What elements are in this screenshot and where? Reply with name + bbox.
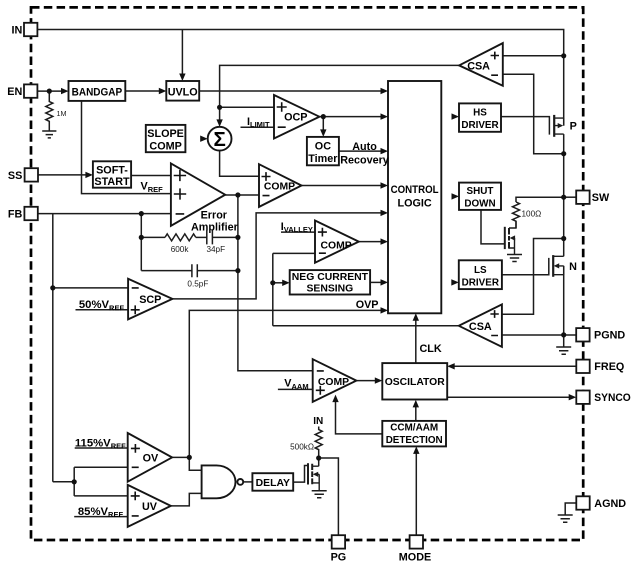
signs valley COMP + -	[318, 228, 327, 254]
wire MODE pin to CCM/AAM DETECTION	[415, 450, 417, 535]
svg-text:PGND: PGND	[594, 330, 625, 342]
wire BANDGAP to UVLO	[125, 90, 162, 92]
svg-text:PG: PG	[331, 552, 347, 563]
wire FB branch down left side	[52, 214, 54, 482]
pin AGND	[576, 496, 589, 509]
svg-text:SHUT: SHUT	[467, 186, 494, 197]
ground below shutdown FET	[507, 255, 522, 262]
arrow into CONTROL LOGIC from OC Timer	[381, 148, 389, 154]
wire SHUT DOWN to discharge FET gate	[481, 210, 505, 244]
svg-text:600k: 600k	[171, 245, 190, 254]
wire feedback RC row leads	[141, 236, 165, 238]
wire summing node output to COMP	[220, 151, 259, 177]
wire OSCILATOR to SYNCO pin	[447, 396, 573, 398]
comparator UV triangle	[128, 485, 171, 527]
junction dot P-FET drain CSA	[561, 151, 566, 156]
wire valley COMP output to CONTROL LOGIC	[359, 241, 385, 243]
junction dot OV output	[187, 455, 192, 460]
wire FB to Error Amplifier inverting input	[38, 213, 171, 215]
arrow into sigma from CSA line	[216, 119, 222, 127]
resistor 1M	[46, 91, 53, 131]
wire 85%VREF input to UV	[74, 516, 128, 518]
signs OCP + -	[277, 102, 287, 127]
wire OCP output branch to OC Timer	[322, 117, 324, 134]
wire P-FET drain to SW to N-FET drain	[563, 134, 565, 256]
resistor 100ohm	[513, 202, 520, 228]
junction dot SCP input	[50, 285, 55, 290]
HS DRIVER block	[459, 103, 501, 131]
arrow into BANDGAP	[61, 88, 69, 94]
DELAY block	[252, 473, 293, 491]
svg-text:NEG CURRENT: NEG CURRENT	[292, 272, 369, 283]
pin EN	[24, 84, 37, 97]
wire 0.5pF row leads	[141, 270, 192, 272]
arrow into SYNCO pin	[569, 394, 577, 400]
svg-text:Error: Error	[201, 209, 228, 221]
transistor Q-shutdown (SW discharge NMOS)	[505, 221, 516, 254]
svg-text:EN: EN	[7, 86, 22, 98]
wire IN drop to UVLO	[181, 30, 183, 78]
signs CSA high + -	[491, 52, 499, 76]
ground below PG FET	[312, 491, 327, 498]
svg-text:DOWN: DOWN	[464, 198, 495, 209]
svg-text:CSA: CSA	[469, 321, 492, 333]
wire 50%VREF input to SCP	[76, 309, 129, 311]
wire CLK from OSCILATOR to CONTROL LOGIC	[415, 316, 417, 363]
capacitor 0.5pF	[192, 264, 197, 277]
wire SS to SOFT-START	[38, 174, 89, 176]
junction dot EN divider	[47, 89, 52, 94]
wire UVLO to CONTROL LOGIC	[199, 90, 384, 92]
svg-text:SS: SS	[8, 170, 22, 182]
wire FB branch to SCP	[53, 287, 128, 289]
comparator OV triangle	[128, 433, 172, 482]
junction dot RC row right	[235, 235, 240, 240]
svg-text:500kΩ: 500kΩ	[290, 442, 314, 451]
svg-text:SOFT-: SOFT-	[96, 164, 128, 176]
svg-text:OV: OV	[143, 453, 159, 465]
OC Timer block	[307, 137, 339, 165]
SHUT DOWN block	[459, 183, 501, 210]
wire NEG CURRENT SENSING output to CONTROL LOGIC	[370, 281, 384, 283]
svg-text:CCM/AAM: CCM/AAM	[390, 423, 438, 434]
wire CSA low-side sense vertical to valley COMP inverting input	[273, 253, 315, 325]
junction dot PGND node	[561, 332, 566, 337]
wire 115%VREF input to OV	[75, 447, 128, 449]
svg-text:COMP: COMP	[264, 181, 295, 192]
svg-text:SLOPE: SLOPE	[147, 128, 184, 140]
SOFT-START block	[93, 161, 131, 187]
NEG CURRENT SENSING block	[290, 270, 370, 294]
wire to NEG CURRENT SENSING input	[273, 282, 287, 284]
ground at PGND node	[556, 347, 571, 354]
wire VAAM input to AAM COMP	[278, 388, 313, 390]
wire CSA output to summing node and OCP	[220, 65, 460, 124]
wire CCM/AAM DETECTION to OSCILATOR	[415, 403, 417, 421]
wire SOFT-START to Error Amplifier	[131, 175, 171, 177]
svg-text:1M: 1M	[57, 109, 67, 118]
junction dot NEG sensing input	[270, 280, 275, 285]
wire IVALLEY input to COMP	[281, 231, 315, 233]
wire NAND to DELAY	[243, 481, 252, 483]
wire OVP route from OV to CONTROL LOGIC	[189, 310, 384, 457]
comparator COMP (PWM) triangle	[259, 164, 302, 207]
wire OV UV common input bracket	[53, 467, 128, 496]
pin PGND	[576, 328, 589, 341]
LS DRIVER block	[459, 260, 502, 289]
junction dot CSA sense to OCP	[217, 105, 222, 110]
svg-text:OSCILATOR: OSCILATOR	[385, 377, 445, 388]
svg-text:DETECTION: DETECTION	[386, 435, 443, 446]
signs AAM COMP - +	[316, 371, 325, 395]
wire HS DRIVER to P-FET gate	[501, 117, 549, 135]
wire OCP output to CONTROL LOGIC	[319, 116, 384, 118]
arrow into UVLO from IN	[179, 74, 185, 82]
svg-text:IN: IN	[313, 416, 323, 427]
svg-text:CLK: CLK	[420, 343, 442, 355]
arrow into AAM COMP from CCM/AAM DETECTION	[332, 395, 338, 403]
pin FB	[24, 207, 37, 220]
wire SW node to SW pin	[564, 196, 577, 198]
capacitor 34pF	[207, 230, 213, 244]
BANDGAP block	[69, 81, 126, 101]
pin SYNCO	[576, 391, 589, 404]
arrow into SHUT DOWN	[452, 193, 460, 199]
junction dot PG node	[316, 455, 321, 460]
wire OV output	[172, 456, 189, 458]
pin SS	[25, 168, 38, 181]
wire error amp output vertical to AAM COMP inverting input	[238, 195, 313, 371]
svg-text:OCP: OCP	[284, 112, 307, 124]
arrow into CONTROL LOGIC from OVP	[381, 307, 389, 313]
svg-text:SYNCO: SYNCO	[594, 392, 631, 404]
pin FREQ	[576, 360, 589, 373]
svg-text:AGND: AGND	[594, 498, 626, 510]
wire feedback node vertical	[140, 214, 142, 271]
pin PG	[332, 535, 345, 548]
wire ILIMIT input to OCP	[241, 126, 275, 128]
svg-text:CSA: CSA	[467, 61, 490, 73]
signs OV + -	[131, 444, 140, 467]
arrow into OSCILATOR from FREQ	[447, 363, 455, 369]
signs COMP + -	[262, 172, 271, 196]
wire LS DRIVER to N-FET gate	[502, 258, 549, 275]
comparator OCP triangle	[274, 95, 319, 139]
arrow into sigma from SLOPE COMP	[200, 136, 208, 142]
arrow into OSCILATOR from AAM COMP	[375, 377, 383, 383]
junction dot 0.5pF row right	[235, 268, 240, 273]
arrow into NEG CURRENT SENSING	[282, 280, 290, 286]
comparator IVALLEY COMP triangle	[315, 221, 359, 263]
junction dot OCP output	[321, 114, 326, 119]
svg-text:UVLO: UVLO	[168, 86, 198, 98]
amplifier CSA high-side triangle (points left)	[459, 43, 503, 86]
wire UV output to NAND input	[171, 493, 202, 506]
resistor 500kohm	[315, 427, 322, 459]
wire COMP output to CONTROL LOGIC	[302, 185, 385, 187]
op-amp Error Amplifier triangle	[171, 163, 225, 225]
svg-text:P: P	[570, 121, 577, 133]
signs CSA low + -	[490, 310, 498, 335]
arrow into UVLO from BANDGAP	[159, 88, 167, 94]
wire low-side CSA output	[273, 325, 459, 327]
arrow into CONTROL LOGIC from OCP	[381, 113, 389, 119]
comparator AAM COMP triangle	[313, 359, 357, 402]
junction dot OV UV bracket	[72, 479, 77, 484]
svg-text:Amplifier: Amplifier	[191, 222, 239, 234]
junction dot FB node	[139, 211, 144, 216]
arrow into CONTROL LOGIC from COMP	[381, 182, 389, 188]
OSCILATOR block	[382, 363, 447, 399]
comparator SCP triangle	[128, 279, 172, 320]
junction dot N-FET drain	[561, 236, 566, 241]
transistor N (low-side NMOS)	[553, 255, 564, 277]
svg-text:Auto: Auto	[352, 141, 377, 153]
junction dot IN node at CSA	[561, 53, 566, 58]
wire CSA - input to SW node	[503, 74, 564, 154]
svg-text:IN: IN	[11, 24, 22, 36]
svg-text:SENSING: SENSING	[307, 284, 354, 295]
arrow into HS DRIVER	[452, 113, 460, 119]
svg-text:FREQ: FREQ	[594, 361, 624, 373]
UVLO block	[166, 81, 199, 101]
svg-text:COMP: COMP	[321, 240, 352, 251]
wire FREQ pin to OSCILATOR	[451, 365, 576, 367]
signs SCP - +	[131, 288, 140, 314]
svg-text:BANDGAP: BANDGAP	[72, 87, 123, 99]
wire VREF from BANDGAP to Error Amplifier	[82, 101, 171, 194]
junction dot error amp output	[235, 192, 240, 197]
CCM/AAM DETECTION block	[382, 421, 446, 447]
CONTROL LOGIC block	[388, 81, 441, 313]
arrow into OC Timer	[320, 129, 326, 137]
wire PG node to PG pin	[319, 458, 339, 535]
SLOPE COMP block	[146, 125, 186, 152]
wire IN rail to P-FET source	[38, 30, 564, 126]
NAND gate body	[202, 465, 236, 498]
wire Error Amplifier output to COMP	[225, 194, 259, 196]
arrow into CONTROL LOGIC from NEG CURRENT SENSING	[381, 279, 389, 285]
ground at AGND pin	[558, 515, 573, 522]
transistor Q-PG (power-good NMOS)	[308, 463, 319, 490]
arrow into CCM/AAM DETECTION from MODE	[413, 446, 419, 454]
wire OV output to NAND input	[189, 457, 201, 470]
svg-text:MODE: MODE	[399, 552, 431, 563]
svg-text:DELAY: DELAY	[256, 478, 290, 489]
junction dot feedback row	[139, 235, 144, 240]
svg-text:OC: OC	[315, 141, 331, 153]
svg-text:Recovery: Recovery	[340, 154, 389, 166]
arrow into CONTROL LOGIC from valley COMP	[381, 238, 389, 244]
signs error amplifier + + -	[174, 170, 187, 214]
wire CCM/AAM DETECTION output to AAM COMP	[336, 398, 383, 434]
arrow CLK into CONTROL LOGIC	[413, 313, 419, 321]
arrow into SOFT-START	[85, 172, 93, 178]
wire CSA + input from IN node	[503, 55, 564, 57]
svg-text:N: N	[569, 261, 577, 273]
svg-text:HS: HS	[473, 108, 487, 119]
wire PGND node to ground	[563, 335, 565, 347]
svg-text:OVP: OVP	[356, 299, 379, 311]
svg-text:COMP: COMP	[318, 377, 349, 388]
summing node sigma circle	[208, 127, 232, 151]
svg-text:SW: SW	[592, 192, 610, 204]
svg-text:34pF: 34pF	[206, 245, 225, 254]
wire N-FET source to PGND node	[563, 266, 565, 335]
arrow into LS DRIVER	[451, 279, 459, 285]
svg-text:SCP: SCP	[139, 294, 161, 306]
wire SW node to 100 ohm resistor	[516, 197, 564, 202]
svg-text:100Ω: 100Ω	[522, 210, 542, 219]
ground below 1M resistor	[42, 131, 56, 138]
pin IN	[24, 23, 37, 36]
svg-text:LS: LS	[474, 265, 487, 276]
wire low-side CSA - input and PGND pin	[502, 334, 576, 336]
wire SCP output route to CONTROL LOGIC	[172, 213, 384, 299]
svg-text:COMP: COMP	[149, 140, 181, 152]
svg-text:Timer: Timer	[308, 153, 338, 165]
arrow into CONTROL LOGIC from UVLO	[381, 88, 389, 94]
wire AGND pin to ground	[565, 503, 576, 515]
transistor P (high-side PMOS)	[554, 115, 564, 137]
arrow into OSCILATOR from CCM/AAM DETECTION	[413, 400, 419, 408]
NAND gate bubble	[237, 479, 243, 485]
amplifier CSA low-side triangle (points left)	[459, 304, 502, 347]
wire AAM COMP output to OSCILATOR	[356, 380, 379, 382]
wire branch to OCP non-inverting input	[220, 106, 274, 108]
pin MODE	[410, 535, 423, 548]
svg-text:LOGIC: LOGIC	[397, 197, 431, 209]
wire EN to BANDGAP	[38, 90, 65, 92]
svg-text:0.5pF: 0.5pF	[187, 280, 208, 289]
svg-text:UV: UV	[142, 501, 158, 513]
resistor 600k	[165, 234, 196, 241]
wire OC Timer Auto Recovery to CONTROL LOGIC	[339, 150, 385, 152]
svg-text:CONTROL: CONTROL	[391, 184, 439, 196]
arrow into CONTROL LOGIC from SCP	[381, 210, 389, 216]
svg-text:START: START	[94, 176, 130, 188]
wire DELAY to PG FET gate	[293, 466, 308, 483]
signs UV + -	[131, 492, 140, 516]
wire low-side CSA + input from SW node	[502, 239, 564, 315]
svg-text:FB: FB	[8, 208, 23, 220]
pin SW	[576, 191, 589, 204]
svg-text:DRIVER: DRIVER	[462, 278, 499, 289]
svg-text:DRIVER: DRIVER	[461, 120, 498, 131]
junction dot SW node	[561, 195, 566, 200]
svg-text:Σ: Σ	[213, 128, 225, 151]
